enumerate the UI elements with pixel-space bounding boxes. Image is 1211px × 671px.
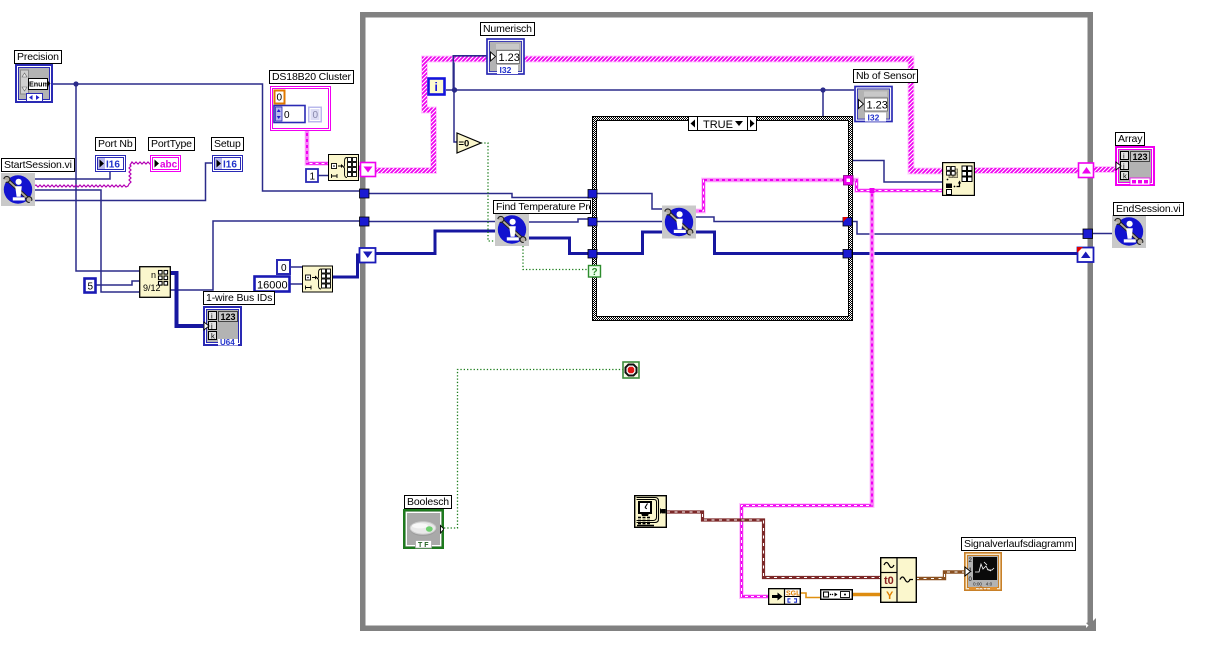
boolean control Boolesch	[403, 509, 444, 549]
wire FindVI array out to case	[528, 238, 589, 254]
wire timestamp DateTime to BuildWaveform t0	[667, 512, 965, 579]
case selector header TRUE	[689, 117, 757, 132]
tunnel loop left session	[360, 217, 370, 226]
wire boolean Boolesch to stop terminal	[444, 370, 623, 529]
wire n912 session out to loop tunnel	[170, 221, 360, 290]
wire string squiggle PortType to StartSession	[34, 162, 151, 187]
svg-text:=0: =0	[459, 139, 470, 150]
svg-text:123: 123	[1133, 152, 1148, 162]
constant 0	[276, 259, 291, 275]
svg-text:0: 0	[277, 93, 283, 104]
tunnel loop right session	[1083, 229, 1093, 239]
tunnel case right cluster	[844, 176, 854, 186]
wire array inside case	[596, 232, 663, 254]
svg-text:Enum: Enum	[29, 80, 49, 89]
case selector terminal	[589, 266, 601, 279]
function ReplaceArraySubset	[942, 162, 975, 196]
wire precision inside loop	[366, 194, 589, 198]
function InitializeArray 1	[328, 154, 359, 181]
function BuildWaveform	[880, 557, 917, 603]
wire orange converter to BuildWaveform Y	[853, 593, 883, 596]
cluster constant DS18B20	[270, 86, 331, 131]
wire boolean EqualZero to FindVI	[444, 143, 623, 528]
tunnel loop left precision	[360, 189, 370, 198]
label Port Nb	[95, 137, 136, 151]
label Setup	[211, 137, 244, 151]
array indicator 1-wire Bus IDs	[203, 306, 242, 346]
svg-text:0: 0	[281, 263, 287, 274]
function EqualToZero	[456, 132, 483, 154]
wire constant 16000 to InitArray2	[290, 283, 302, 285]
wire constant 5 to n912	[96, 281, 140, 285]
svg-text:I32: I32	[500, 65, 512, 75]
while loop border	[360, 12, 1096, 631]
label DS18B20 Cluster	[269, 70, 354, 84]
svg-text:0:00 4:0: 0:00 4:0	[973, 582, 993, 587]
shift register right (array) with red mark	[1077, 247, 1094, 262]
svg-text:1.23: 1.23	[499, 52, 520, 64]
waveform chart terminal Signalverlaufsdiagramm	[964, 552, 1002, 591]
wire cluster dashed: DS18B20 to InitArray1	[307, 130, 943, 597]
wire i to Numerisch	[446, 57, 487, 90]
numeric indicator Nb of Sensor	[854, 85, 893, 123]
label Nb of Sensor	[853, 69, 918, 83]
label Find Temperature Probes	[493, 200, 591, 214]
wire constant 1 to InitArray1	[318, 175, 328, 177]
case structure border	[593, 117, 853, 321]
wire NbSensor feed from case border	[853, 161, 943, 183]
junction cluster wire	[870, 188, 875, 193]
svg-text:I16: I16	[106, 160, 120, 171]
wire i long to Nb of Sensor	[454, 89, 854, 91]
wire session inside case	[596, 221, 663, 223]
vi icon EndSession.vi	[1112, 215, 1146, 248]
tunnel case right session with red mark	[843, 217, 852, 226]
function ToSGL	[768, 588, 801, 605]
wire session to EndSession	[1092, 233, 1112, 235]
constant 1	[305, 168, 319, 183]
wire Port Nb to StartSession	[34, 172, 110, 179]
wire constant 0 to InitArray2	[290, 266, 302, 268]
vi icon Find Temperature Probes	[495, 213, 529, 246]
svg-text:t0: t0	[884, 575, 894, 587]
svg-text:0: 0	[313, 110, 319, 121]
function InitializeArray 2	[302, 265, 333, 293]
wire session case to loop tunnel	[853, 222, 1084, 235]
vi icon n 9/12	[139, 266, 171, 298]
tunnel case left session	[588, 218, 597, 227]
wire StartSession session to n912	[34, 190, 139, 292]
svg-text:j: j	[1122, 161, 1125, 170]
svg-text:9/12: 9/12	[143, 283, 161, 293]
svg-text:j: j	[210, 321, 213, 330]
svg-text:I16: I16	[223, 160, 237, 171]
svg-text:1.23: 1.23	[867, 100, 888, 112]
wire orange ToSGL to converter	[800, 593, 821, 598]
vi icon inside case	[662, 205, 696, 239]
tunnel case left precision	[588, 190, 597, 199]
wire precision inside case	[596, 194, 663, 210]
constant 5	[83, 277, 97, 294]
label 1-wire Bus IDs	[203, 291, 275, 305]
constant 16000	[253, 275, 291, 293]
svg-text:I32: I32	[868, 113, 880, 123]
junction dot i NbSensor	[820, 87, 825, 92]
wire InitArray2 out to left shift register	[333, 255, 361, 277]
wire waveform BuildWaveform to Chart	[916, 572, 965, 579]
svg-text:T F: T F	[418, 542, 429, 549]
svg-text:n: n	[151, 270, 156, 280]
wire Precision branch to n912	[76, 84, 139, 271]
wire cluster dashed: VI2 to case pink tunnel	[696, 180, 844, 211]
wire VI2 session out to case tunnel	[696, 217, 844, 222]
svg-text:abc: abc	[160, 160, 178, 171]
shift register right (cluster array)	[1079, 163, 1094, 178]
iteration terminal i	[427, 77, 446, 96]
svg-text:k: k	[211, 331, 215, 340]
svg-text:?: ?	[592, 267, 598, 278]
wire session inside loop to FindVI	[366, 221, 495, 223]
shift register left (array)	[360, 248, 376, 263]
label Numerisch	[480, 22, 535, 36]
svg-text:i: i	[435, 80, 438, 94]
vi icon StartSession.vi	[1, 173, 35, 206]
junction dot Precision	[73, 81, 78, 86]
svg-text:5: 5	[88, 282, 94, 293]
numeric indicator Numerisch	[486, 38, 525, 75]
wire Precision to loop tunnel	[52, 84, 360, 191]
wire cluster-array hatched: left SR up and across top to ReplaceArraySubset	[359, 59, 1120, 171]
enum control Precision	[15, 64, 53, 103]
svg-text:16000: 16000	[257, 280, 288, 292]
wire VI2 array out to case tunnel	[696, 232, 844, 254]
array indicator Array	[1115, 146, 1155, 186]
wire Setup to StartSession	[34, 163, 212, 201]
wire U64 array n912 to BusIDs indicator	[170, 273, 205, 326]
terminal Setup I16	[212, 155, 243, 172]
wire FindVI session out to case	[528, 219, 589, 222]
label Signalverlaufsdiagramm	[961, 537, 1076, 551]
label Boolesch	[404, 495, 452, 509]
wire cluster-array hatched: right SR to Array indicator	[1093, 166, 1120, 173]
terminal PortType string	[150, 155, 181, 172]
terminal Port Nb I16	[95, 155, 126, 172]
svg-text:TRUE: TRUE	[703, 119, 733, 131]
loop condition stop terminal	[622, 361, 640, 379]
wire cluster dashed: junction down to ToSGL	[742, 191, 873, 597]
tunnel case left array	[588, 250, 597, 259]
junction dot i out	[452, 87, 457, 92]
function GetDateTimeInSeconds	[634, 495, 667, 528]
wire array case to right shift register	[853, 252, 1078, 255]
wire i branch into case top	[822, 90, 824, 116]
svg-text:k: k	[1123, 171, 1127, 180]
svg-text:0: 0	[284, 110, 290, 121]
wire cluster-array hatched: RAS to right SR	[975, 167, 1080, 174]
wire boolean FindVI to case selector	[523, 246, 589, 270]
wire i to Numerisch over hatched	[453, 56, 487, 90]
svg-text:Y: Y	[886, 590, 894, 602]
label EndSession.vi	[1113, 202, 1184, 216]
svg-text:1: 1	[310, 172, 316, 183]
label Precision	[14, 50, 62, 64]
svg-text:U64: U64	[220, 338, 235, 346]
shift register left (cluster array)	[361, 163, 376, 177]
wire cluster dashed: case tunnel to ReplaceArraySubset	[853, 180, 943, 191]
svg-text:123: 123	[221, 312, 236, 322]
while loop corner arrow	[1083, 618, 1096, 631]
label StartSession.vi	[1, 158, 75, 172]
function converter strip	[820, 589, 853, 600]
wire left SR to FindVI	[376, 231, 495, 254]
wire i to EqualZero	[454, 90, 458, 142]
label Array	[1115, 132, 1145, 146]
label PortType	[148, 137, 195, 151]
tunnel case right array	[843, 250, 852, 259]
